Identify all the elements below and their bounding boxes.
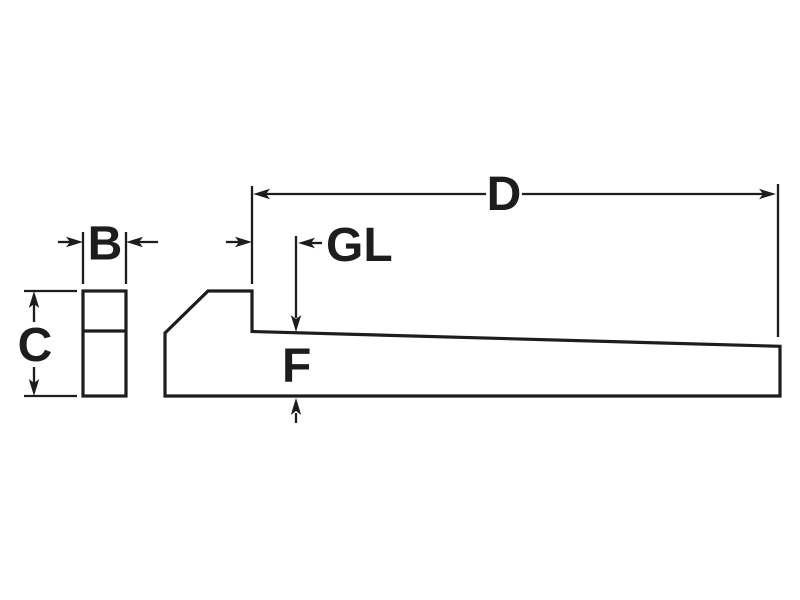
dimension B: left extension line (82, 232, 84, 284)
dimension GL: down arrowhead on grind line (291, 315, 301, 332)
dimension D: left arrowhead (253, 189, 270, 199)
dimension D: left extension line (251, 186, 253, 284)
dimension D: right arrowhead (759, 189, 776, 199)
dimension D: left segment of dimension line (266, 193, 486, 195)
dimension C: down arrowhead (29, 379, 39, 396)
dimension B: right arrowhead (126, 237, 143, 247)
svg-text:C: C (18, 319, 53, 372)
dimension B: left arrowhead (66, 237, 83, 247)
dimension D: right segment of dimension line (522, 193, 763, 195)
dimension C: bottom extension tick (24, 395, 77, 397)
dimension C: up arrowhead (29, 291, 39, 308)
side view: blade outline (165, 291, 780, 396)
svg-text:F: F (282, 340, 311, 393)
dimension C: upper dimension line (33, 304, 35, 322)
dimension B: right leader line (139, 241, 158, 243)
dimension B: left leader line (58, 241, 70, 243)
dimension B: right extension line (125, 232, 127, 284)
end view: blade cross-section rectangle (83, 291, 126, 396)
svg-text:GL: GL (326, 219, 393, 272)
dimension GL: vertical line down to grind line (295, 236, 297, 318)
svg-text:D: D (487, 168, 522, 221)
dimension GL: left-pointing arrowhead (298, 238, 315, 248)
dimension D: right extension line (777, 184, 779, 337)
dimension GL: leader line of right-pointing arrow (226, 241, 239, 243)
dimension C: lower dimension line (33, 367, 35, 383)
dimension GL: leader line of left-pointing arrow (311, 242, 322, 244)
end view: inner horizontal line (ground line) (83, 329, 126, 332)
dimension C: top extension tick (24, 290, 77, 292)
svg-text:B: B (88, 218, 123, 271)
dimension F: up arrowhead under bottom line (291, 398, 301, 415)
dimension F: leader line below up arrowhead (295, 413, 297, 423)
dimension GL: right-pointing arrowhead at step (235, 237, 252, 247)
